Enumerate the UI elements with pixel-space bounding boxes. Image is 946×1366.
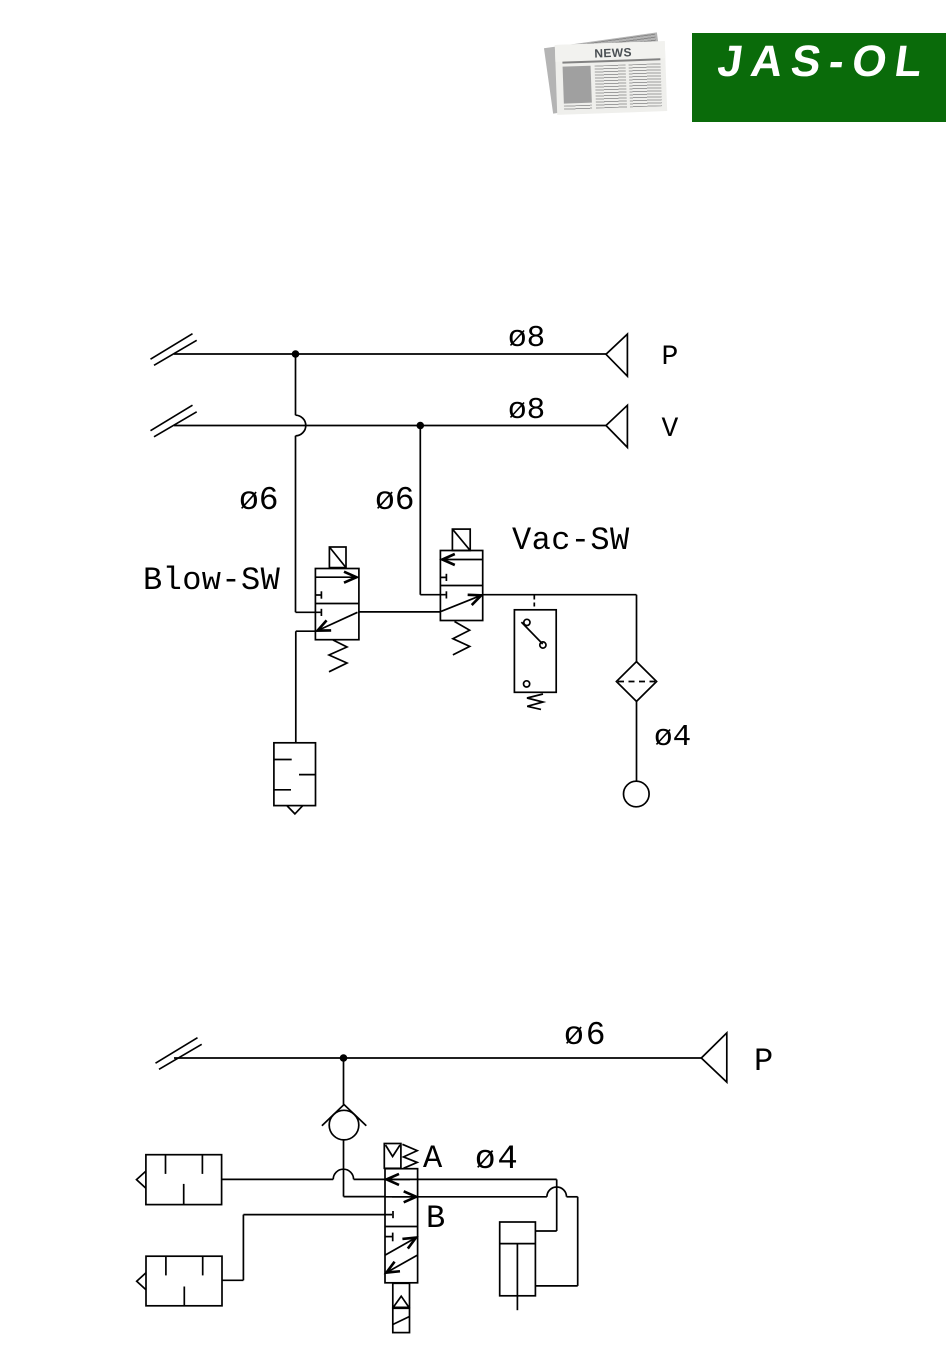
control valve pilot box with check bbox=[384, 1144, 401, 1169]
port triangle bottom P bbox=[701, 1033, 727, 1082]
vacuum filter bbox=[616, 662, 656, 702]
suction pad bbox=[624, 781, 650, 807]
valve Blow-SW top-box flow arrow bbox=[315, 576, 356, 578]
wire: P dot down to Blow-SW with hop over V line bbox=[296, 354, 321, 612]
node: junction dot bottom P line bbox=[340, 1054, 348, 1062]
svg-text:P: P bbox=[754, 1043, 773, 1080]
valve Vac-SW top-box blocked port bbox=[440, 574, 446, 581]
line break symbol V line bbox=[151, 405, 197, 437]
blow nozzle muffler bbox=[274, 743, 316, 814]
svg-text:Vac-SW: Vac-SW bbox=[512, 522, 630, 559]
svg-text:ø6: ø6 bbox=[375, 482, 415, 519]
wire: A-line from cylinder 1 to valve (hop over check valve wire) bbox=[222, 1169, 385, 1179]
svg-text:B: B bbox=[426, 1200, 445, 1237]
control valve blocked port (bottom section) bbox=[385, 1233, 393, 1242]
valve Vac-SW solenoid bbox=[452, 529, 470, 550]
wire: cylinder 2 to riser bbox=[222, 1215, 243, 1281]
line break symbol bottom P line bbox=[156, 1038, 202, 1070]
newspaper icon bbox=[545, 29, 669, 117]
control valve body bbox=[385, 1169, 418, 1283]
port triangle P bbox=[606, 334, 627, 376]
valve Blow-SW body bbox=[315, 569, 359, 640]
pressure switch box bbox=[514, 610, 556, 693]
wire: V dot down to Vac-SW bbox=[420, 426, 445, 595]
valve Vac-SW bottom-box blocked port bbox=[445, 591, 447, 598]
svg-text:ø6: ø6 bbox=[564, 1017, 608, 1054]
valve Vac-SW bottom-box flow arrow bbox=[441, 595, 481, 611]
control valve bottom exhaust/solenoid box bbox=[393, 1283, 410, 1332]
node: junction dot on V line bbox=[417, 422, 425, 430]
pilot dashed line to pressure switch bbox=[533, 596, 535, 610]
control valve A flow arrow (left) bbox=[387, 1178, 411, 1180]
wire: A-line through valve to right cylinder top port bbox=[385, 1179, 557, 1231]
svg-text:ø4: ø4 bbox=[654, 720, 691, 755]
wire: cylinder 2 line into valve blocked port bbox=[243, 1214, 392, 1216]
right cylinder bbox=[500, 1222, 536, 1310]
wire: junction down to check valve bbox=[343, 1058, 345, 1105]
control valve blocked port (top section) bbox=[392, 1211, 394, 1218]
valve Blow-SW return spring bbox=[329, 640, 347, 672]
port triangle V bbox=[606, 405, 627, 447]
control valve crossed flow arrow 1 bbox=[385, 1238, 416, 1256]
wire: B-line through valve, hop, to right cylinder bottom port bbox=[385, 1187, 578, 1286]
wire: Vac-SW output to filter bbox=[483, 595, 637, 662]
line break symbol P line bbox=[151, 334, 197, 366]
check valve bbox=[322, 1105, 366, 1140]
control valve top spring bbox=[402, 1144, 417, 1168]
logo JAS-OL bbox=[692, 33, 946, 122]
supply line V (top circuit) bbox=[174, 425, 606, 427]
wire: Blow-SW to Vac-SW bbox=[359, 611, 441, 613]
wire: Blow-SW output to blow nozzle bbox=[296, 631, 316, 743]
wire: filter to suction pad bbox=[636, 701, 638, 781]
supply line P (bottom circuit) bbox=[174, 1057, 701, 1059]
valve Blow-SW bottom-box flow arrow bbox=[318, 612, 358, 630]
cylinder 1 (upper left) bbox=[137, 1155, 222, 1205]
valve Vac-SW body bbox=[440, 551, 482, 621]
cylinder 2 (lower left) bbox=[137, 1256, 222, 1306]
valve Blow-SW bottom-box blocked port bbox=[320, 609, 322, 616]
svg-text:ø4: ø4 bbox=[475, 1141, 520, 1179]
valve Blow-SW solenoid bbox=[329, 547, 346, 568]
pressure switch spring bbox=[527, 694, 543, 709]
valve Vac-SW return spring bbox=[453, 622, 470, 655]
svg-text:Blow-SW: Blow-SW bbox=[143, 562, 281, 599]
wire: check valve down, turn right to valve B port bbox=[344, 1140, 386, 1197]
node: junction dot on P line bbox=[292, 350, 300, 358]
svg-text:P: P bbox=[662, 342, 679, 373]
valve Blow-SW top-box blocked port bbox=[315, 591, 321, 598]
svg-text:V: V bbox=[662, 414, 679, 445]
svg-text:ø6: ø6 bbox=[239, 482, 279, 519]
supply line P (top circuit) bbox=[174, 353, 606, 355]
svg-text:ø8: ø8 bbox=[508, 393, 545, 428]
control valve crossed flow arrow 2 bbox=[386, 1255, 417, 1272]
svg-text:ø8: ø8 bbox=[508, 321, 545, 356]
valve Vac-SW top-box flow arrow bbox=[442, 559, 482, 561]
svg-text:A: A bbox=[423, 1140, 443, 1177]
control valve B flow arrow (right) bbox=[392, 1196, 416, 1198]
